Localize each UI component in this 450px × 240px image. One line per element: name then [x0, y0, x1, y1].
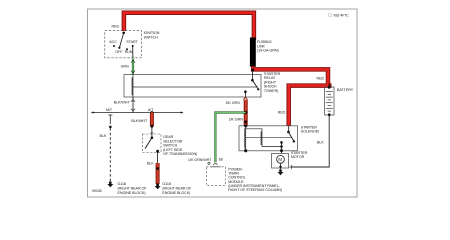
starter solenoid box: [239, 126, 298, 151]
connector below relay output (orange): [243, 97, 247, 99]
svg-text:BLK: BLK: [147, 162, 154, 166]
svg-text:(10-GA-GRN): (10-GA-GRN): [257, 49, 279, 53]
starter solenoid label: [301, 125, 320, 133]
fusible link label: [257, 40, 279, 53]
connector at motor: [289, 165, 291, 169]
wire BLK (battery negative to starter motor): [292, 115, 330, 167]
junction dot A/T: [151, 111, 154, 114]
svg-text:BATTERY: BATTERY: [337, 88, 354, 92]
powertrain control module dashed box: [206, 167, 225, 186]
svg-text:START: START: [126, 40, 138, 44]
ignition switch dashed box: [105, 31, 142, 58]
wire M/T A/T horizontal: [91, 111, 183, 113]
svg-text:OFF: OFF: [115, 50, 123, 54]
solenoid hold-in coil: [246, 129, 282, 147]
connector at PCM: [208, 162, 221, 167]
copyright mark: [328, 13, 349, 17]
relay internal bus line: [133, 86, 258, 88]
ground G118 (left): [107, 181, 113, 187]
ignition switch position labels: [109, 40, 138, 54]
gear selector switch dashed box: [143, 134, 162, 153]
svg-text:BLK: BLK: [317, 141, 324, 145]
connector above M/T wire: [131, 109, 135, 111]
starter motor symbol: [277, 155, 285, 170]
wire BLK (gear switch to ground, red): [156, 151, 159, 184]
relay coil: [132, 75, 133, 97]
svg-text:ENGINE BLOCK): ENGINE BLOCK): [118, 191, 146, 195]
relay switch blade: [251, 79, 259, 91]
svg-text:M: M: [278, 157, 282, 162]
connector on GRN wire (lower): [131, 71, 135, 73]
svg-text:DK GRN: DK GRN: [229, 118, 243, 122]
border frame: [88, 9, 358, 197]
svg-text:GRN: GRN: [121, 65, 129, 69]
svg-text:90028: 90028: [92, 189, 102, 193]
svg-text:M/T: M/T: [106, 108, 113, 112]
svg-text:RUN: RUN: [125, 50, 133, 54]
svg-text:ENGINE BLOCK): ENGINE BLOCK): [162, 191, 190, 195]
connector below relay: [131, 100, 135, 102]
starter relay label: [264, 72, 281, 93]
svg-text:RED: RED: [278, 110, 286, 114]
ignition switch label: [144, 31, 160, 39]
wire BLK ground branch: [108, 115, 112, 182]
solenoid switch blade: [287, 126, 295, 143]
solenoid pull-in coil: [245, 126, 246, 151]
gear selector switch contacts and blade: [145, 126, 159, 153]
relay output contact: [244, 90, 247, 97]
svg-text:RED: RED: [317, 77, 325, 81]
wire BLK/WHT (relay coil to splice): [132, 97, 134, 113]
wire GRN (ignition to relay): [132, 59, 134, 75]
junction below fusible link: [251, 69, 254, 72]
battery: [325, 86, 335, 116]
wire BLK/WHT (A/T branch, red): [150, 113, 153, 128]
svg-text:BLK/WHT: BLK/WHT: [131, 119, 148, 123]
svg-text:OF TRANSMISSION): OF TRANSMISSION): [163, 152, 197, 156]
svg-text:RED: RED: [112, 25, 120, 29]
svg-text:RIGHT OF STEERING COLUMN): RIGHT OF STEERING COLUMN): [228, 188, 282, 192]
svg-text:DK GRN: DK GRN: [226, 101, 240, 105]
starter motor box: [272, 154, 289, 169]
starter motor label: [291, 151, 308, 159]
svg-text:MOTOR: MOTOR: [291, 155, 305, 159]
fusible link: [250, 38, 256, 67]
wire RED (ignition switch to fusible link, to battery, to solenoid): [124, 13, 332, 126]
ignition switch contacts and blade: [113, 32, 134, 51]
powertrain control module label: [228, 168, 282, 193]
svg-text:ACC: ACC: [109, 40, 117, 44]
svg-text:SOLENOID: SOLENOID: [301, 130, 320, 134]
svg-text:X83 4FTC: X83 4FTC: [333, 14, 349, 18]
gear selector switch label: [163, 135, 197, 156]
solenoid terminal (top left): [244, 125, 247, 128]
solenoid internal bus line: [246, 136, 292, 138]
wire DK GRN/WHT (green, to PCM): [215, 113, 245, 163]
solenoid coil ground terminal: [244, 149, 247, 152]
svg-text:A/T: A/T: [148, 108, 154, 112]
ground G118 (gear switch): [155, 183, 161, 189]
solenoid output post: [280, 141, 283, 153]
label G118 (gear switch): [162, 182, 192, 195]
svg-text:68: 68: [219, 157, 223, 161]
relay contact feed from fusible link: [251, 70, 253, 80]
svg-text:BLK: BLK: [100, 134, 107, 138]
svg-text:BLK/WHT: BLK/WHT: [114, 100, 131, 104]
svg-text:DK GRN/WHT: DK GRN/WHT: [188, 158, 212, 162]
wire DK GRN (relay to solenoid, red): [244, 100, 247, 126]
svg-text:SWITCH: SWITCH: [144, 35, 158, 39]
starter relay box: [124, 75, 261, 98]
connector on GRN wire (upper): [131, 60, 135, 62]
wire from START terminal: [132, 46, 134, 58]
ground (starter motor): [278, 169, 284, 175]
label G118 left: [118, 182, 148, 195]
svg-text:TOWER): TOWER): [264, 89, 278, 93]
